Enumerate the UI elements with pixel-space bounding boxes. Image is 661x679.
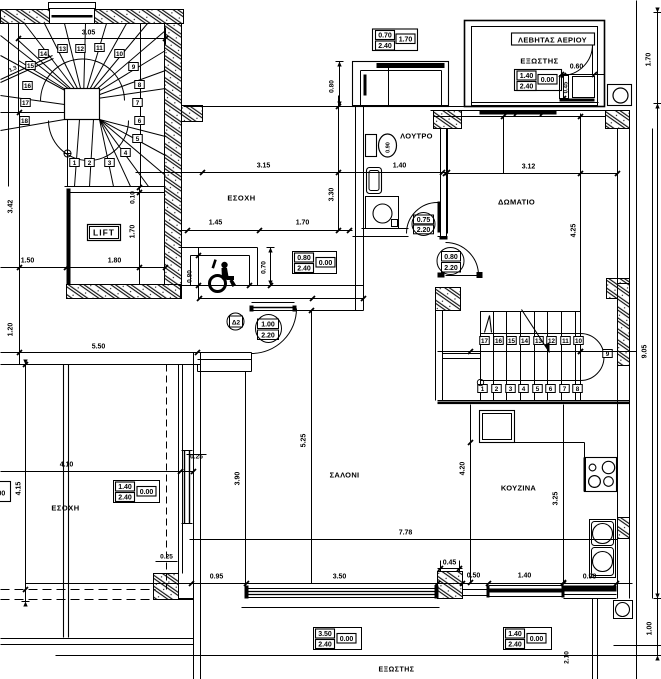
svg-text:3.15: 3.15 <box>257 163 271 170</box>
svg-text:5.50: 5.50 <box>92 344 106 351</box>
svg-text:0.00: 0.00 <box>541 77 555 84</box>
svg-text:0.00: 0.00 <box>0 491 5 498</box>
svg-text:1.45: 1.45 <box>209 220 223 227</box>
svg-text:0.70: 0.70 <box>261 261 268 274</box>
svg-text:7: 7 <box>563 386 567 393</box>
svg-text:15: 15 <box>508 338 516 345</box>
svg-text:ΕΞΩΣΤΗΣ: ΕΞΩΣΤΗΣ <box>378 667 414 674</box>
svg-text:2.40: 2.40 <box>118 495 132 502</box>
svg-text:0.00: 0.00 <box>140 489 154 496</box>
svg-text:0.80: 0.80 <box>187 270 194 283</box>
svg-text:3.50: 3.50 <box>318 631 332 638</box>
svg-text:8: 8 <box>576 386 580 393</box>
svg-text:16: 16 <box>24 83 32 90</box>
svg-text:18: 18 <box>21 118 29 125</box>
svg-text:4.15: 4.15 <box>16 482 23 496</box>
svg-text:ΛΟΥΤΡΟ: ΛΟΥΤΡΟ <box>400 132 433 141</box>
svg-text:7: 7 <box>136 100 140 107</box>
svg-text:1.40: 1.40 <box>520 73 534 80</box>
svg-text:2: 2 <box>495 386 499 393</box>
svg-text:ΔΩΜΑΤΙΟ: ΔΩΜΑΤΙΟ <box>498 198 535 207</box>
svg-text:0.45: 0.45 <box>564 81 570 93</box>
svg-text:0.80: 0.80 <box>329 80 336 93</box>
svg-text:1.40: 1.40 <box>518 573 532 580</box>
svg-text:5: 5 <box>136 136 140 143</box>
svg-text:7.78: 7.78 <box>399 530 413 537</box>
svg-text:5: 5 <box>536 386 540 393</box>
svg-text:10: 10 <box>116 51 124 58</box>
svg-text:11: 11 <box>96 45 103 52</box>
svg-text:0.95: 0.95 <box>210 574 224 581</box>
svg-text:2.20: 2.20 <box>261 333 275 340</box>
svg-text:2.10: 2.10 <box>564 651 571 664</box>
svg-text:2.40: 2.40 <box>378 43 392 50</box>
svg-text:3.12: 3.12 <box>522 164 536 171</box>
svg-text:ΚΟΥΖΙΝΑ: ΚΟΥΖΙΝΑ <box>501 484 537 493</box>
svg-text:0.90: 0.90 <box>386 142 392 153</box>
svg-text:1.20: 1.20 <box>8 323 15 337</box>
svg-text:3.25: 3.25 <box>553 492 560 506</box>
svg-text:1.70: 1.70 <box>130 225 137 239</box>
svg-text:3.05: 3.05 <box>82 30 96 37</box>
svg-text:2.40: 2.40 <box>318 642 332 649</box>
svg-text:3: 3 <box>108 160 112 167</box>
svg-text:1.00: 1.00 <box>647 622 654 636</box>
svg-text:1.50: 1.50 <box>21 258 35 265</box>
svg-text:4.20: 4.20 <box>460 462 467 476</box>
svg-text:3.42: 3.42 <box>8 200 15 214</box>
svg-text:3.50: 3.50 <box>333 574 347 581</box>
svg-text:0.00: 0.00 <box>530 636 544 643</box>
svg-text:14: 14 <box>521 338 529 345</box>
svg-text:17: 17 <box>22 100 30 107</box>
svg-text:4: 4 <box>124 150 128 157</box>
svg-text:2.40: 2.40 <box>520 84 534 91</box>
svg-text:1: 1 <box>73 160 77 167</box>
svg-text:1.70: 1.70 <box>296 220 310 227</box>
svg-text:17: 17 <box>481 338 489 345</box>
svg-text:0.60: 0.60 <box>570 64 584 71</box>
svg-text:ΛΕΒΗΤΑΣ ΑΕΡΙΟΥ: ΛΕΒΗΤΑΣ ΑΕΡΙΟΥ <box>518 36 587 45</box>
svg-text:0.45: 0.45 <box>443 560 457 567</box>
svg-text:4.25: 4.25 <box>571 224 578 238</box>
svg-text:14: 14 <box>40 51 48 58</box>
svg-text:3: 3 <box>509 386 513 393</box>
svg-text:ΕΞΩΣΤΗΣ: ΕΞΩΣΤΗΣ <box>520 57 558 66</box>
svg-text:2.40: 2.40 <box>508 642 522 649</box>
svg-text:0.80: 0.80 <box>444 254 458 261</box>
svg-text:11: 11 <box>562 338 569 345</box>
svg-text:2.20: 2.20 <box>417 227 431 234</box>
svg-text:3.30: 3.30 <box>329 188 336 202</box>
svg-text:13: 13 <box>535 338 543 345</box>
svg-text:15: 15 <box>27 63 35 70</box>
svg-text:1.70: 1.70 <box>399 37 413 44</box>
svg-text:0.70: 0.70 <box>378 33 392 40</box>
svg-text:1.40: 1.40 <box>118 484 132 491</box>
svg-text:5.25: 5.25 <box>301 434 308 448</box>
svg-text:ΣΑΛΟΝΙ: ΣΑΛΟΝΙ <box>330 471 360 480</box>
svg-text:ΕΣΟΧΗ: ΕΣΟΧΗ <box>227 194 255 203</box>
svg-text:9.05: 9.05 <box>642 345 649 359</box>
svg-text:0.50: 0.50 <box>467 573 481 580</box>
svg-text:3.90: 3.90 <box>235 472 242 486</box>
svg-text:0.25: 0.25 <box>160 554 173 561</box>
svg-text:4: 4 <box>522 386 526 393</box>
svg-text:1.00: 1.00 <box>261 322 275 329</box>
svg-text:1.80: 1.80 <box>108 258 122 265</box>
svg-text:6: 6 <box>138 118 142 125</box>
svg-text:1.40: 1.40 <box>393 163 407 170</box>
svg-text:0.10: 0.10 <box>130 191 137 204</box>
svg-text:1.40: 1.40 <box>508 631 522 638</box>
svg-text:0.00: 0.00 <box>340 636 354 643</box>
svg-text:16: 16 <box>495 338 503 345</box>
svg-text:ΕΣΟΧΗ: ΕΣΟΧΗ <box>51 504 79 513</box>
svg-text:LIFT: LIFT <box>93 228 115 238</box>
svg-text:Δ2: Δ2 <box>232 320 241 327</box>
svg-text:0.75: 0.75 <box>417 217 431 224</box>
svg-text:2.20: 2.20 <box>444 265 458 272</box>
svg-text:12: 12 <box>77 46 85 53</box>
svg-text:0.80: 0.80 <box>297 255 311 262</box>
svg-text:6: 6 <box>549 386 553 393</box>
svg-text:0.00: 0.00 <box>319 260 333 267</box>
svg-text:2.40: 2.40 <box>297 266 311 273</box>
svg-text:0.98: 0.98 <box>583 574 597 581</box>
svg-text:9: 9 <box>132 64 136 71</box>
svg-text:4.10: 4.10 <box>60 462 74 469</box>
svg-text:13: 13 <box>59 46 67 53</box>
svg-text:1: 1 <box>481 386 485 393</box>
svg-text:2: 2 <box>88 160 92 167</box>
svg-text:8: 8 <box>138 82 142 89</box>
svg-text:10: 10 <box>575 338 583 345</box>
svg-text:1.70: 1.70 <box>646 53 653 67</box>
